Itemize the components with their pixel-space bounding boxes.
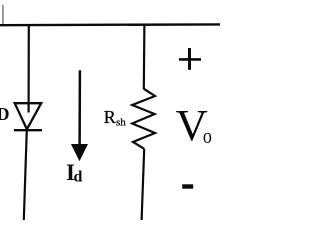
diode D cathode bar (14, 129, 42, 131)
current arrow Id head (71, 144, 88, 161)
wire: resistor Rsh down to bottom edge (142, 149, 145, 220)
wire: top bus down to diode anode (28, 24, 30, 113)
minus terminal sign (182, 184, 193, 188)
current arrow Id stem (78, 70, 81, 147)
wire: top bus down to resistor Rsh (143, 24, 146, 89)
diode D triangle (anode) (15, 103, 42, 129)
svg-text:d: d (74, 169, 83, 186)
left edge scan tick (2, 5, 4, 24)
svg-text:sh: sh (116, 117, 126, 129)
wire: diode cathode down to bottom edge (24, 130, 27, 221)
svg-text:o: o (203, 124, 212, 148)
resistor Rsh zigzag (132, 89, 155, 149)
plus terminal sign (179, 58, 201, 61)
svg-text:R: R (104, 107, 116, 127)
svg-text:D: D (0, 104, 10, 124)
top bus wire (node between cell terminals) (0, 23, 220, 26)
